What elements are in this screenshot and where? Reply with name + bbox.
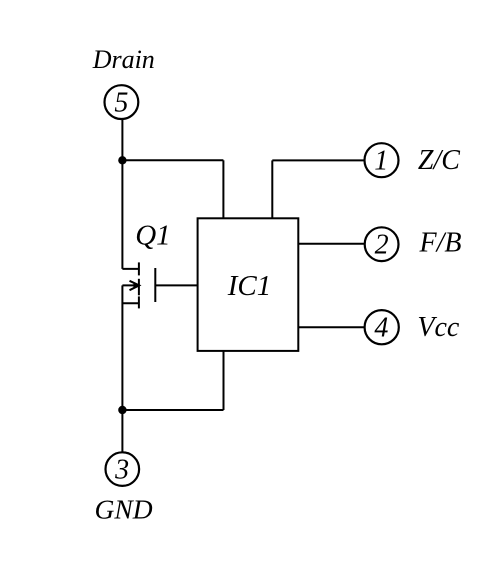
wire gate to IC [155, 284, 197, 286]
svg-text:Drain: Drain [92, 45, 155, 74]
svg-text:IC1: IC1 [227, 270, 272, 302]
terminal circle 1 [365, 143, 399, 177]
IC box IC1 [198, 218, 299, 351]
junction dot gnd node [118, 406, 126, 414]
transistor Q1 channel top bar [138, 262, 140, 275]
terminal circle 5 [105, 85, 139, 119]
terminal circle 3 [106, 452, 140, 486]
wire top horizontal (junction to IC corner) [122, 159, 223, 161]
wire pin2 horizontal [298, 243, 365, 245]
wire bottom horizontal to junction [122, 409, 223, 411]
transistor Q1 channel bottom bar [138, 296, 140, 308]
terminal circle 2 [365, 227, 399, 261]
transistor Q1 body arrow [130, 281, 140, 290]
transistor Q1 drain stub [122, 268, 138, 270]
svg-text:F/B: F/B [419, 227, 462, 258]
wire vertical into IC top [222, 160, 224, 218]
transistor Q1 gate bar [154, 268, 156, 302]
svg-text:Z/C: Z/C [418, 145, 460, 176]
svg-text:5: 5 [114, 87, 128, 118]
transistor Q1 source stub [122, 302, 138, 304]
svg-text:Q1: Q1 [135, 220, 170, 252]
junction dot drain node [118, 156, 126, 164]
transistor Q1 channel middle bar [138, 279, 140, 296]
svg-text:2: 2 [375, 229, 389, 260]
svg-text:4: 4 [374, 312, 388, 343]
wire IC top to Z/C riser [271, 160, 273, 218]
svg-text:3: 3 [114, 454, 129, 485]
terminal circle 4 [365, 310, 399, 344]
wire IC bottom down [223, 351, 225, 410]
transistor Q1 body stub [122, 284, 138, 286]
wire horizontal to circle 1 [272, 159, 365, 161]
wire drain vertical (circle5 to mosfet drain stub) [121, 119, 123, 269]
wire pin4 horizontal [298, 326, 365, 328]
svg-text:1: 1 [374, 145, 388, 176]
svg-text:GND: GND [95, 493, 153, 524]
wire source vertical (body stub down to circle 3) [121, 285, 123, 452]
svg-text:Vcc: Vcc [417, 312, 460, 343]
